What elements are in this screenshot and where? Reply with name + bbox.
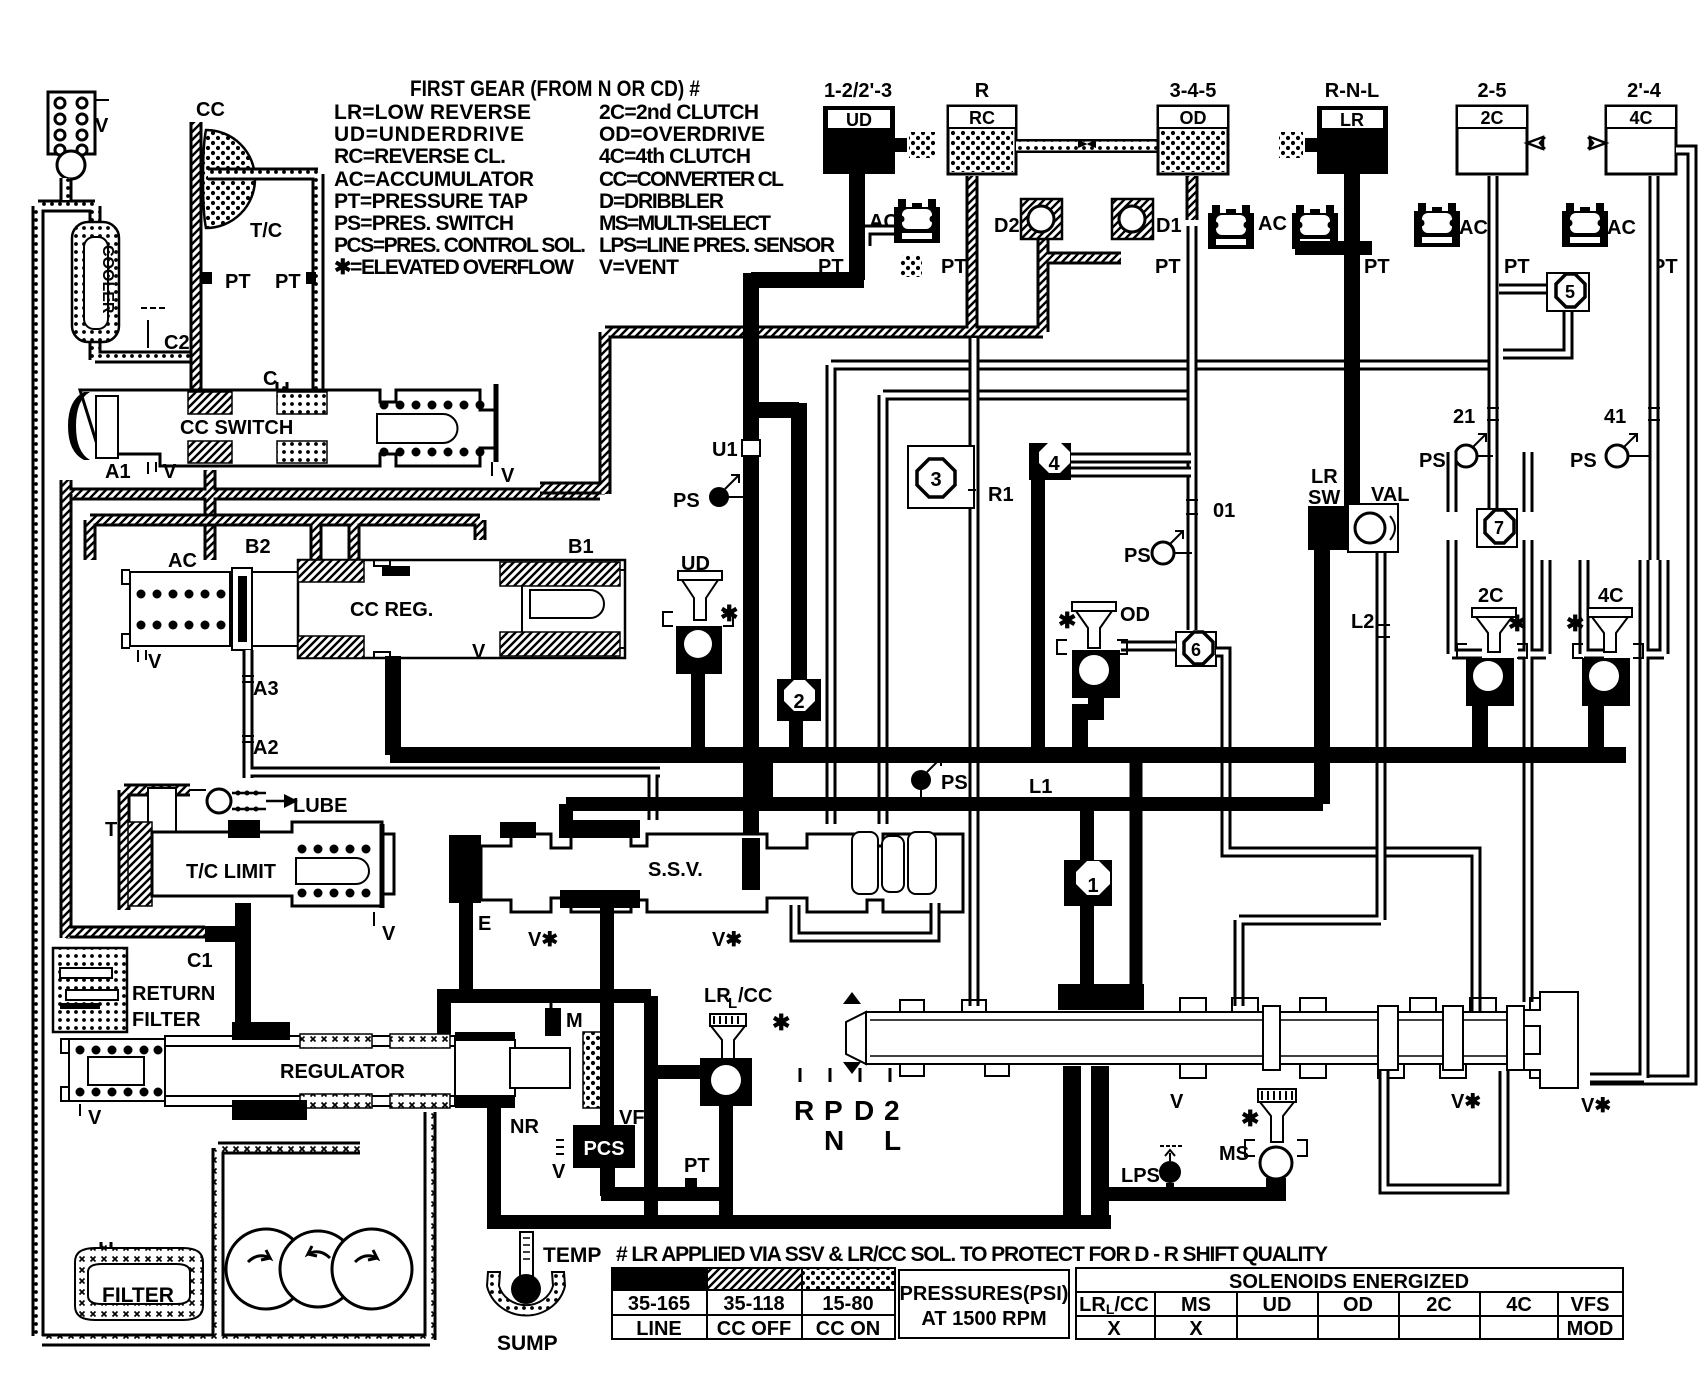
svg-text:R1: R1 [988, 484, 1014, 506]
wire UD clutch feed line [751, 174, 864, 838]
svg-text:7: 7 [1494, 518, 1504, 538]
svg-text:21: 21 [1453, 406, 1475, 428]
svg-text:L: L [884, 1125, 901, 1156]
svg-text:01: 01 [1213, 500, 1235, 522]
wire converter return channel [208, 174, 318, 400]
svg-text:D2: D2 [994, 215, 1020, 237]
svg-text:C: C [263, 368, 277, 390]
wire hex6 to OD solenoid [1121, 641, 1176, 652]
svg-text:V: V [501, 465, 515, 487]
svg-text:REGULATOR: REGULATOR [280, 1061, 405, 1083]
svg-text:V: V [148, 651, 162, 673]
wire cooler loop channel [38, 178, 190, 1336]
svg-text:2C: 2C [1426, 1294, 1452, 1316]
svg-text:AC: AC [1459, 217, 1488, 239]
dribbler D2 [994, 199, 1062, 239]
wire node 4 to bus [1031, 480, 1045, 752]
wire node 2 to bus [789, 721, 803, 750]
svg-text:FILTER: FILTER [102, 1284, 174, 1307]
svg-text:T/C: T/C [250, 220, 282, 242]
svg-text:R-N-L: R-N-L [1325, 80, 1379, 102]
solenoid PCS pressure control [573, 1125, 635, 1168]
svg-text:CC=CONVERTER CL: CC=CONVERTER CL [599, 168, 784, 191]
svg-text:MS=MULTI-SELECT: MS=MULTI-SELECT [599, 212, 771, 235]
svg-text:B2: B2 [245, 536, 271, 558]
svg-text:CC SWITCH: CC SWITCH [180, 417, 293, 439]
wire CC REG to bus [385, 656, 401, 755]
svg-text:PS: PS [941, 772, 968, 794]
node 4 [1029, 442, 1071, 752]
orifice U1 [742, 440, 760, 456]
svg-text:RC=REVERSE CL.: RC=REVERSE CL. [334, 145, 506, 168]
node 5 [1499, 273, 1589, 354]
wire 4C clutch line [1649, 176, 1660, 560]
svg-text:D1: D1 [1156, 215, 1182, 237]
wire L1 bus [566, 804, 1323, 838]
svg-text:RC: RC [969, 108, 995, 128]
accumulator AC (2C) [1414, 203, 1460, 247]
node 7 and 2C solenoid enclosure [1452, 452, 1546, 1002]
svg-text:LINE: LINE [636, 1318, 682, 1340]
wire E-line down [644, 996, 658, 1222]
svg-text:AC=ACCUMULATOR: AC=ACCUMULATOR [334, 168, 534, 191]
pressure switch PS (01 line) [1124, 531, 1192, 567]
svg-text:V: V [382, 923, 396, 945]
svg-text:LUBE: LUBE [293, 795, 347, 817]
svg-text:L2: L2 [1351, 611, 1374, 633]
svg-text:2C: 2C [1480, 108, 1503, 128]
svg-text:V: V [1170, 1091, 1184, 1113]
svg-text:2: 2 [884, 1095, 900, 1126]
svg-text:6: 6 [1191, 640, 1201, 660]
line pressure sensor LPS [1121, 1146, 1182, 1193]
svg-text:15-80: 15-80 [822, 1293, 873, 1315]
valve MANUAL (R P D 2 N L) [843, 992, 1611, 1189]
solenoid LRL/CC [700, 985, 790, 1106]
wire OD clutch line [1187, 226, 1198, 630]
svg-text:T/C LIMIT: T/C LIMIT [186, 861, 276, 883]
svg-text:AC: AC [168, 550, 197, 572]
svg-text:2C=2nd CLUTCH: 2C=2nd CLUTCH [599, 101, 759, 124]
svg-text:VFS: VFS [1571, 1294, 1610, 1316]
wire PCS to bus [601, 1168, 615, 1194]
dribbler D1 [1112, 199, 1182, 239]
svg-text:LRL/CC: LRL/CC [1079, 1294, 1149, 1317]
svg-text:R: R [794, 1095, 814, 1126]
node 6 [1176, 632, 1216, 666]
svg-text:X: X [1189, 1318, 1203, 1340]
valve S.S.V. solenoid switch valve [449, 820, 963, 996]
wire LR/CC solenoid drain [719, 1100, 733, 1222]
svg-text:D: D [854, 1095, 874, 1126]
svg-text:5: 5 [1565, 282, 1575, 302]
svg-text:C2: C2 [164, 332, 190, 354]
wire C1 line T/C LIMIT to REGULATOR [235, 903, 251, 1030]
svg-text:LPS: LPS [1121, 1165, 1160, 1187]
svg-text:TEMP: TEMP [543, 1244, 601, 1267]
solenoid MS multi-select [1219, 1089, 1307, 1201]
wire hex6 to manual valve port [1216, 652, 1476, 1012]
wire E block down [459, 903, 473, 996]
svg-text:SW: SW [1308, 487, 1340, 509]
svg-text:UD: UD [846, 110, 872, 130]
svg-text:✱: ✱ [772, 1010, 790, 1035]
port VF dribbler [583, 1032, 613, 1108]
svg-text:LPS=LINE PRES. SENSOR: LPS=LINE PRES. SENSOR [599, 234, 835, 257]
svg-text:PCS: PCS [583, 1138, 624, 1160]
wire NR line and bottom bus [487, 1108, 1111, 1224]
svg-text:2: 2 [793, 691, 804, 713]
svg-text:A3: A3 [253, 678, 279, 700]
wire RC clutch line [969, 338, 980, 1006]
svg-text:2-5: 2-5 [1478, 80, 1507, 102]
svg-text:35-165: 35-165 [628, 1293, 690, 1315]
svg-text:AC: AC [1607, 217, 1636, 239]
clutch LR [1279, 106, 1388, 174]
svg-text:V=VENT: V=VENT [599, 256, 679, 279]
svg-text:AC: AC [1258, 213, 1287, 235]
wire C1 branch [205, 926, 243, 942]
wire manual valve outputs down [1072, 1066, 1100, 1224]
clutch RC [948, 106, 1016, 174]
svg-text:3: 3 [930, 469, 941, 491]
return filter [53, 948, 215, 1032]
svg-text:V: V [88, 1107, 102, 1129]
svg-text:V✱: V✱ [1451, 1091, 1481, 1113]
svg-text:V: V [95, 115, 109, 137]
wire bus jog [759, 751, 773, 804]
wire hatched channels below CC SWITCH [66, 470, 600, 560]
svg-text:R: R [975, 80, 990, 102]
svg-text:OD: OD [1180, 108, 1207, 128]
svg-text:MOD: MOD [1567, 1318, 1614, 1340]
node 2 [777, 679, 821, 721]
clutch 2C [1457, 106, 1545, 174]
svg-text:CC: CC [196, 99, 225, 121]
port M [545, 1008, 561, 1036]
svg-text:PS: PS [1419, 450, 1446, 472]
svg-text:V✱: V✱ [528, 929, 558, 951]
svg-text:SOLENOIDS ENERGIZED: SOLENOIDS ENERGIZED [1229, 1271, 1469, 1293]
svg-text:1-2/2'-3: 1-2/2'-3 [824, 80, 892, 102]
svg-text:U1: U1 [712, 439, 738, 461]
svg-text:V: V [472, 641, 486, 663]
svg-text:SUMP: SUMP [497, 1332, 558, 1355]
svg-text:X: X [1107, 1318, 1121, 1340]
svg-text:B1: B1 [568, 536, 594, 558]
clutch UD [823, 106, 935, 174]
svg-text:V: V [552, 1161, 566, 1183]
svg-text:PT: PT [1155, 256, 1181, 278]
pressure switch PS (UD line) [673, 475, 744, 512]
svg-text:✱: ✱ [1058, 608, 1076, 633]
svg-text:PS: PS [1570, 450, 1597, 472]
valve CC REG [252, 560, 625, 663]
svg-text:2C: 2C [1478, 585, 1504, 607]
svg-text:PT: PT [684, 1155, 710, 1177]
svg-text:A1: A1 [105, 461, 131, 483]
svg-text:CC REG.: CC REG. [350, 599, 433, 621]
svg-text:OD: OD [1120, 604, 1150, 626]
svg-text:OD: OD [1343, 1294, 1373, 1316]
svg-text:PT: PT [941, 256, 967, 278]
accumulator AC (UD) [894, 199, 940, 243]
accumulator AC pair (OD/LR) [1208, 205, 1254, 249]
wire converter charge channel [190, 122, 203, 392]
wire E manifold line [437, 996, 651, 1034]
port M stub [550, 998, 553, 1008]
svg-text:RETURN: RETURN [132, 983, 215, 1005]
valve T/C LIMIT [105, 788, 396, 945]
wire main line pressure bus [390, 747, 1626, 763]
svg-text:CC OFF: CC OFF [717, 1318, 791, 1340]
svg-text:✱: ✱ [1508, 611, 1526, 636]
svg-text:C1: C1 [187, 950, 213, 972]
svg-text:VAL: VAL [1371, 484, 1410, 506]
wire LR clutch feed [1344, 174, 1360, 512]
accumulator AC (B2 circuit) [122, 536, 594, 673]
wire channel H1 to 2C line [831, 365, 1490, 824]
wire L2 line [1239, 552, 1381, 1006]
vent strainer V [48, 92, 109, 179]
svg-text:P: P [824, 1095, 843, 1126]
svg-text:2'-4: 2'-4 [1627, 80, 1662, 102]
svg-text:PT: PT [1504, 256, 1530, 278]
solenoid 2C [1457, 585, 1527, 750]
svg-text:PT: PT [225, 271, 251, 293]
node C2 vent stub [147, 320, 149, 348]
svg-text:3-4-5: 3-4-5 [1170, 80, 1217, 102]
svg-text:A2: A2 [253, 737, 279, 759]
svg-text:V: V [163, 461, 177, 483]
node 3 with R1 orifice [908, 446, 1014, 508]
wire UD branch to node 2 [758, 403, 799, 688]
svg-text:LR=LOW REVERSE: LR=LOW REVERSE [334, 101, 531, 124]
wire 2C clutch line [1488, 176, 1499, 512]
accumulator AC (4C) [1562, 203, 1608, 247]
svg-text:35-118: 35-118 [723, 1293, 784, 1315]
sump and temperature sensor [487, 1232, 601, 1355]
svg-text:PRESSURES(PSI): PRESSURES(PSI) [900, 1283, 1069, 1305]
svg-text:4C: 4C [1506, 1294, 1532, 1316]
svg-text:41: 41 [1604, 406, 1626, 428]
solenoid UD [663, 553, 738, 750]
clutch 4C [1588, 106, 1676, 174]
svg-text:N: N [824, 1125, 844, 1156]
wire node 1 to manual valve [1080, 906, 1094, 990]
wire bus to manual valve [1130, 760, 1143, 996]
svg-text:T: T [105, 819, 117, 841]
pressure switch PS (21 line) [1419, 434, 1493, 472]
wire to LR/CC solenoid [651, 1065, 705, 1079]
svg-text:4C: 4C [1629, 108, 1652, 128]
svg-text:MS: MS [1181, 1294, 1211, 1316]
manual valve feed joint [1058, 984, 1144, 1010]
svg-text:UD: UD [1263, 1294, 1292, 1316]
valve REGULATOR [61, 1022, 570, 1129]
svg-text:OD=OVERDRIVE: OD=OVERDRIVE [599, 123, 765, 146]
wire SSV bottom drop [600, 905, 614, 960]
svg-text:M: M [566, 1010, 583, 1032]
wire 4C vent border line [1590, 150, 1692, 1080]
pressure tap labels PT row [818, 256, 1678, 278]
wire 2C solenoid to bus [1472, 706, 1488, 750]
svg-text:4: 4 [1048, 453, 1060, 475]
torque converter T/C [203, 130, 255, 228]
svg-text:L1: L1 [1029, 776, 1052, 798]
svg-text:V✱: V✱ [712, 929, 742, 951]
svg-text:PS: PS [673, 490, 700, 512]
solenoid 4C [1566, 585, 1643, 750]
svg-text:PS: PS [1124, 545, 1151, 567]
svg-text:4C: 4C [1598, 585, 1624, 607]
svg-text:PT: PT [1364, 256, 1390, 278]
wire node 4 to OD line [1071, 458, 1191, 472]
solenoid OD [1057, 602, 1150, 752]
svg-text:D=DRIBBLER: D=DRIBBLER [599, 190, 724, 213]
valve CC SWITCH [68, 384, 515, 487]
svg-text:V✱: V✱ [1581, 1095, 1611, 1117]
wire AC-UD accumulator link [866, 230, 894, 246]
svg-text:NR: NR [510, 1116, 539, 1138]
svg-text:PT=PRESSURE TAP: PT=PRESSURE TAP [334, 190, 528, 213]
svg-text:L: L [728, 995, 737, 1012]
pump and suction filter [42, 1112, 430, 1340]
gear position letters R P D 2 N L [794, 1095, 901, 1156]
svg-text:4C=4th CLUTCH: 4C=4th CLUTCH [599, 145, 751, 168]
wire V* vent loop [1384, 1071, 1504, 1189]
svg-text:PS=PRES. SWITCH: PS=PRES. SWITCH [334, 212, 514, 235]
svg-text:1: 1 [1087, 875, 1098, 897]
svg-text:PCS=PRES. CONTROL SOL.: PCS=PRES. CONTROL SOL. [334, 234, 586, 257]
svg-text:✱: ✱ [1241, 1106, 1259, 1131]
svg-text:# LR APPLIED VIA SSV & LR/CC S: # LR APPLIED VIA SSV & LR/CC SOL. TO PRO… [616, 1243, 1328, 1266]
svg-text:E: E [478, 913, 491, 935]
wire channel H2 to OD line [883, 395, 1191, 824]
wire UD solenoid to bus [691, 674, 705, 750]
clutch OD [1158, 106, 1228, 174]
cooler COOLER [72, 222, 119, 342]
accumulators AC row [869, 199, 1636, 277]
pressure switch PS (L1) [911, 758, 968, 800]
4C solenoid enclosure [1584, 560, 1664, 1078]
wire SSV drain to PT bus [601, 958, 733, 1196]
svg-text:LR: LR [1340, 110, 1364, 130]
lube circuit LUBE [176, 789, 347, 817]
svg-text:✱: ✱ [1566, 611, 1584, 636]
wire LR SW to L1 [1314, 550, 1330, 804]
svg-text:FILTER: FILTER [132, 1009, 201, 1031]
svg-text:FIRST GEAR (FROM N OR CD) #: FIRST GEAR (FROM N OR CD) # [410, 76, 700, 101]
wire 4C solenoid to bus [1588, 706, 1604, 750]
wire bottom bus to MS [1104, 1187, 1283, 1201]
svg-text:✱: ✱ [720, 601, 738, 626]
svg-text:COOLER: COOLER [99, 245, 116, 314]
svg-text:CC ON: CC ON [816, 1318, 880, 1340]
svg-text:PT: PT [275, 271, 301, 293]
dribbler channel RC-OD [1016, 139, 1158, 153]
svg-text:S.S.V.: S.S.V. [648, 859, 703, 881]
wire A3/A2 line [248, 650, 660, 820]
wire L1 to node 1 [1080, 806, 1094, 864]
svg-text:/CC: /CC [738, 985, 772, 1007]
svg-text:✱=ELEVATED OVERFLOW: ✱=ELEVATED OVERFLOW [334, 256, 574, 279]
svg-text:UD=UNDERDRIVE: UD=UNDERDRIVE [334, 123, 524, 146]
wire dribbler channels RC/D2/D1/OD [966, 176, 1192, 332]
wire AC to LR line [1295, 241, 1372, 255]
LR switch valve LR SW VAL [1308, 466, 1410, 552]
svg-text:LR: LR [1311, 466, 1338, 488]
svg-text:AT 1500 RPM: AT 1500 RPM [921, 1308, 1046, 1330]
